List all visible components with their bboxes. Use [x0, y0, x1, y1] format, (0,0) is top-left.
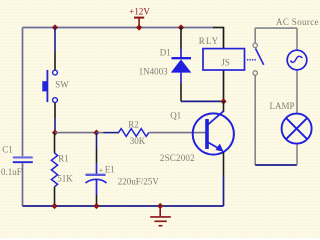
wire outer loop left vertical (lower part, below C1) [22, 163, 24, 206]
wire AC loop right above source [296, 28, 298, 50]
wire R1 top lead [54, 133, 56, 153]
node junction E1 top [93, 129, 99, 135]
relay RLY coil box [203, 49, 245, 70]
wire top rail dark segment into relay corner [213, 27, 224, 29]
svg-text:220uF/25V: 220uF/25V [118, 177, 160, 187]
wire AC loop right below lamp [296, 144, 298, 165]
lamp X stroke 2 [286, 118, 307, 139]
wire top +12V rail [23, 27, 215, 29]
wire relay coil pin top [223, 27, 225, 49]
wire AC loop right between source and lamp [296, 70, 298, 113]
AC source sine wave [291, 56, 303, 62]
node junction R1 bottom [51, 203, 57, 209]
svg-text:51K: 51K [57, 173, 73, 183]
capacitor C1 plates [13, 156, 33, 158]
switch SW actuator bar [46, 70, 48, 102]
node junction ground [157, 203, 163, 209]
node junction collector/relay/diode [220, 98, 226, 104]
wire mid horizontal navy to R2 [97, 132, 104, 134]
power +12V stem [138, 18, 140, 28]
wire AC loop top rail [255, 27, 297, 29]
node junction E1 bottom [93, 203, 99, 209]
wire switch lower lead navy [54, 118, 56, 133]
node junction diode branch on rail [178, 24, 184, 30]
svg-text:R1: R1 [58, 153, 69, 163]
switch SW terminal circle bottom [53, 98, 58, 103]
ground symbol bar 1 [150, 216, 171, 218]
wire mid horizontal gray [55, 132, 97, 134]
diode D1 cathode bar [172, 57, 192, 59]
transistor Q1 emitter diagonal [208, 142, 221, 150]
wire switch lower lead black [54, 103, 56, 118]
svg-text:E1: E1 [105, 164, 115, 174]
transistor Q1 base bar [205, 119, 209, 149]
wire D1 bottom lead black [180, 83, 182, 101]
capacitor E1 top plate [86, 174, 106, 176]
resistor R1 zigzag [51, 153, 57, 187]
wire D1 top lead blue stub [180, 49, 182, 57]
svg-text:JS: JS [221, 57, 230, 67]
wire switch upper lead black [54, 52, 56, 70]
wire base gray [149, 132, 206, 134]
wire emitter vertical navy to bottom rail [223, 175, 225, 206]
switch SW terminal circle top [53, 70, 58, 75]
svg-text:+12V: +12V [129, 7, 150, 17]
transistor Q1 collector diagonal [208, 111, 225, 125]
wire switch upper lead navy [54, 28, 56, 53]
wire R1 bottom lead [54, 187, 56, 206]
wire bottom rail navy [23, 205, 224, 207]
lamp X stroke 1 [286, 118, 307, 139]
wire D1 bottom lead blue stub [180, 73, 182, 83]
node junction switch branch on rail [52, 24, 58, 30]
svg-text:LAMP: LAMP [270, 101, 295, 111]
svg-text:Q1: Q1 [170, 110, 181, 120]
wire AC loop left top [254, 28, 256, 43]
resistor R2 zigzag [119, 129, 149, 137]
wire emitter vertical black [223, 152, 225, 175]
relay contact blade [256, 49, 264, 65]
svg-text:SW: SW [55, 80, 69, 90]
wire relay coil pin bottom [223, 70, 225, 102]
relay contact terminal circle top [253, 43, 257, 47]
svg-text:RLY: RLY [199, 36, 219, 46]
AC source circle [287, 50, 307, 70]
capacitor E1 bottom curved plate [86, 179, 107, 183]
relay linkage dots [247, 59, 249, 61]
power +12V bar [134, 17, 144, 19]
ground symbol stem [159, 206, 161, 216]
svg-text:30K: 30K [130, 136, 146, 146]
svg-text:0.1uF: 0.1uF [1, 167, 22, 177]
wire E1 bottom lead navy [96, 180, 98, 195]
svg-text:AC Source: AC Source [276, 17, 319, 27]
node junction +12V on rail [136, 24, 142, 30]
svg-text:C1: C1 [2, 144, 13, 154]
svg-text:2SC2002: 2SC2002 [160, 153, 195, 163]
node junction base rail left [52, 129, 58, 135]
wire collector vertical black [223, 101, 225, 111]
transistor Q1 emitter arrow [216, 144, 224, 152]
switch SW button [42, 81, 47, 91]
wire E1 top lead black [96, 133, 98, 148]
svg-text:1N4003: 1N4003 [139, 66, 168, 76]
wire D1 to collector node horizontal [181, 100, 224, 102]
wire AC loop bottom navy [255, 164, 297, 166]
relay contact terminal circle bottom [253, 71, 257, 75]
wire E1 top lead blue stub [96, 163, 98, 174]
wire outer loop left vertical (upper part, above C1) [22, 28, 24, 157]
ground symbol bar 2 [154, 220, 166, 222]
ground symbol bar 3 [159, 225, 163, 227]
svg-text:+: + [99, 166, 103, 174]
wire AC loop left bottom [254, 75, 256, 165]
transistor Q1 circle [193, 113, 234, 154]
svg-text:D1: D1 [160, 47, 171, 57]
diode D1 triangle [171, 59, 192, 72]
lamp circle [282, 114, 312, 144]
svg-text:R2: R2 [128, 119, 139, 129]
wire D1 top lead black [180, 28, 182, 50]
